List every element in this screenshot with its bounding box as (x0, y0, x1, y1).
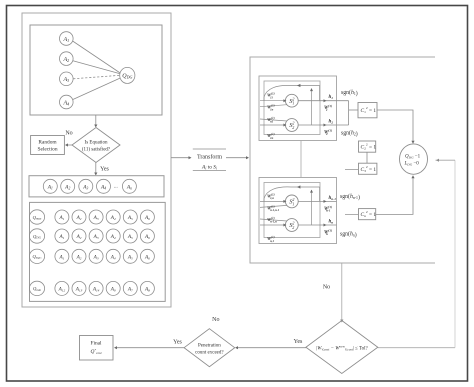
svg-text:W(1)1n: W(1)1n (267, 132, 275, 140)
svg-text:Cn2 = 1: Cn2 = 1 (361, 210, 377, 218)
svg-text:A2: A2 (62, 57, 69, 63)
svg-text:W(1)1,n: W(1)1,n (267, 192, 275, 200)
svg-text:A2: A2 (76, 215, 82, 221)
svg-text:A6: A6 (144, 234, 150, 240)
svg-text:A1: A1 (58, 215, 64, 221)
svg-text:hn-1: hn-1 (329, 196, 337, 201)
svg-text:A3: A3 (62, 77, 69, 83)
svg-text:Random: Random (38, 140, 57, 146)
svg-text:C22 = 1: C22 = 1 (361, 143, 377, 151)
svg-text:W(1)2: W(1)2 (324, 129, 332, 137)
svg-text:h2: h2 (329, 120, 334, 125)
svg-text:A12: A12 (58, 286, 66, 292)
svg-text:A3: A3 (93, 215, 99, 221)
svg-text:W(1)1: W(1)1 (324, 104, 332, 112)
svg-text:Is Equation: Is Equation (85, 141, 108, 146)
svg-text:sgn(h2): sgn(h2) (341, 130, 358, 138)
svg-text:An: An (126, 185, 132, 191)
svg-text:A4: A4 (62, 100, 69, 106)
svg-text:|WV,cost − WnewV,cost| ≤ Tol?: |WV,cost − WnewV,cost| ≤ Tol? (316, 345, 369, 353)
svg-text:Yes: Yes (173, 340, 182, 346)
svg-text:A1: A1 (58, 254, 64, 260)
svg-text:A2: A2 (76, 234, 82, 240)
svg-text:sgn(h1): sgn(h1) (341, 89, 358, 97)
svg-text:QDG: QDG (122, 74, 132, 80)
svg-text:W(1)11: W(1)11 (267, 92, 275, 100)
svg-text:Final: Final (90, 341, 102, 347)
svg-text:A13: A13 (75, 286, 83, 292)
svg-text:A4: A4 (110, 234, 116, 240)
svg-text:sgn(hn-1): sgn(hn-1) (340, 193, 360, 201)
svg-text:A4: A4 (110, 254, 116, 260)
svg-text:LDG −0: LDG −0 (404, 162, 420, 167)
svg-text:W(1)n-1,n-1: W(1)n-1,n-1 (267, 204, 280, 212)
svg-text:S22: S22 (289, 221, 294, 230)
svg-text:A8: A8 (144, 286, 150, 292)
svg-text:A4: A4 (100, 185, 106, 191)
svg-text:A14: A14 (92, 286, 100, 292)
svg-text:Yes: Yes (294, 339, 303, 345)
svg-text:Ai to Si: Ai to Si (201, 164, 217, 170)
svg-text:C32 = 1: C32 = 1 (361, 165, 377, 173)
svg-text:A1: A1 (58, 234, 64, 240)
svg-text:A2: A2 (76, 254, 82, 260)
svg-text:...: ... (114, 185, 118, 190)
svg-text:sgn(hn): sgn(hn) (340, 231, 357, 239)
svg-text:No: No (65, 131, 72, 137)
svg-text:Selection: Selection (37, 147, 57, 153)
svg-text:A1: A1 (47, 185, 53, 191)
svg-text:A5: A5 (127, 234, 133, 240)
svg-text:A2: A2 (64, 185, 70, 191)
svg-text:W(1)1n: W(1)1n (267, 104, 275, 112)
svg-text:A6: A6 (144, 215, 150, 221)
svg-text:S22: S22 (289, 121, 294, 130)
svg-text:QSVC: QSVC (33, 254, 43, 260)
svg-text:No: No (323, 285, 330, 291)
svg-text:QDG −1: QDG −1 (405, 155, 421, 160)
svg-text:A3: A3 (93, 234, 99, 240)
svg-text:W(1)n-1,n: W(1)n-1,n (267, 216, 277, 224)
svg-text:W(1)n-1: W(1)n-1 (324, 205, 332, 213)
svg-text:Q*cost: Q*cost (90, 348, 102, 355)
svg-text:Yes: Yes (100, 167, 109, 173)
svg-text:A4: A4 (110, 215, 116, 221)
svg-text:Penetration: Penetration (198, 344, 221, 349)
svg-text:A3: A3 (93, 254, 99, 260)
svg-text:W(1)n1: W(1)n1 (267, 116, 275, 124)
svg-text:S21: S21 (289, 96, 294, 105)
svg-text:count exceed?: count exceed? (195, 351, 224, 356)
svg-text:hn: hn (329, 220, 334, 225)
svg-text:W(1)n: W(1)n (324, 229, 332, 237)
svg-text:A5: A5 (127, 215, 133, 221)
svg-text:Qmin: Qmin (33, 286, 42, 292)
svg-text:QDG: QDG (33, 234, 42, 240)
svg-text:S21: S21 (289, 197, 294, 206)
svg-text:A6: A6 (144, 254, 150, 260)
svg-text:A9: A9 (110, 286, 116, 292)
svg-text:A3: A3 (82, 185, 88, 191)
svg-text:(11) satisfied?: (11) satisfied? (82, 148, 111, 153)
svg-text:A7: A7 (127, 286, 133, 292)
svg-text:Qmax: Qmax (33, 215, 42, 221)
svg-text:A1: A1 (62, 37, 69, 43)
svg-text:W(1)n,1: W(1)n,1 (267, 235, 275, 243)
svg-text:h1: h1 (329, 95, 334, 100)
svg-text:Transform: Transform (197, 153, 222, 160)
svg-text:C12 = 1: C12 = 1 (361, 106, 377, 114)
svg-text:No: No (212, 317, 219, 323)
svg-text:A5: A5 (127, 254, 133, 260)
